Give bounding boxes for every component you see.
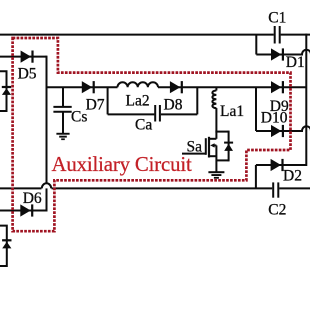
diode D1 (271, 48, 281, 60)
wire Ca branch right vertical (196, 87, 198, 114)
ground below Cs (56, 133, 69, 135)
capacitor C1 left plate (274, 26, 276, 44)
capacitor C2 left plate (272, 182, 274, 197)
diode left bridge top (2, 86, 11, 88)
wire right rail (305, 34, 307, 166)
svg-text:D6: D6 (23, 190, 42, 207)
wire Cs stem lower (62, 112, 64, 134)
svg-text:D7: D7 (86, 97, 105, 114)
wire body diode branch (228, 131, 230, 162)
wire D1 stem (255, 35, 257, 55)
diode D6 (20, 204, 30, 216)
diode D7 (82, 81, 92, 93)
wire Ca branch right horizontal (161, 113, 198, 115)
wire D6 anode (0, 210, 47, 212)
transistor Sa body arrow (210, 143, 214, 147)
wire bottom rail right of C2 (279, 187, 310, 189)
wire left bridge bottom leg (0, 226, 7, 266)
wire D5 anode (0, 56, 47, 58)
wire D2 branch (256, 164, 306, 166)
ground below Sa (208, 171, 224, 173)
wire D2 stem (255, 165, 257, 189)
wire La1 stem upper (215, 87, 217, 90)
wire body stub (214, 144, 216, 146)
diode D5 (21, 51, 31, 63)
wire Ca branch left vertical (107, 87, 109, 114)
wire mosfet drain stub (209, 138, 217, 140)
diode D8 (170, 81, 180, 93)
svg-text:Ca: Ca (135, 116, 152, 133)
svg-text:D8: D8 (164, 96, 183, 113)
transistor Sa gate bar (205, 138, 207, 155)
wire middle rail: La2 to right rail (158, 86, 306, 88)
wire gate lead (182, 153, 206, 155)
svg-text:D2: D2 (283, 167, 302, 184)
wire D9 junction stem (255, 87, 257, 131)
svg-text:D1: D1 (286, 54, 305, 71)
diode D2 (271, 159, 281, 171)
svg-text:Auxiliary Circuit: Auxiliary Circuit (52, 153, 192, 176)
svg-text:C1: C1 (268, 10, 286, 27)
wire Ca branch left horizontal (108, 113, 155, 115)
wire La1 to mosfet drain (215, 108, 217, 139)
capacitor C1 right plate (279, 26, 281, 44)
svg-text:La2: La2 (126, 93, 150, 110)
wire D1 output with hop (256, 50, 311, 55)
wire mosfet source stub (209, 155, 217, 157)
wire left bridge top leg (0, 71, 7, 111)
capacitor Cs top plate (53, 106, 71, 108)
wire top rail right of C1 (281, 34, 310, 36)
diode D9 (271, 81, 281, 93)
diode left bridge bottom (2, 239, 11, 241)
svg-text:La1: La1 (220, 103, 244, 120)
svg-text:D10: D10 (261, 110, 288, 127)
wire D10 branch with hop (256, 126, 311, 131)
wire Cs stem upper (62, 87, 64, 106)
capacitor C2 right plate (277, 182, 279, 197)
inductor La2 coil (118, 82, 158, 87)
capacitor Ca left plate (154, 105, 156, 122)
diode D10 (271, 125, 281, 137)
wire drain tee to body diode (215, 131, 228, 133)
diode Sa body diode (224, 142, 233, 144)
node A vertical (D5/D6 cathode node, upper part) (46, 56, 48, 184)
inductor La1 coil (212, 91, 216, 109)
wire bottom rail left of hop (0, 187, 42, 189)
dashed auxiliary circuit box (13, 38, 291, 231)
svg-text:D5: D5 (18, 65, 37, 82)
svg-text:C2: C2 (268, 202, 286, 219)
wire source tee to body diode (216, 159, 228, 161)
capacitor Ca right plate (159, 105, 161, 122)
wire hop over node A (42, 183, 51, 188)
wire top rail left of C1 (0, 34, 274, 36)
wire bottom rail to C2 (52, 187, 273, 189)
wire middle rail: node A to La2 (46, 86, 118, 88)
capacitor Cs bottom plate (53, 111, 71, 113)
wire source vertical to ground (215, 145, 217, 172)
node A vertical (lower part to D6) (46, 188, 48, 211)
transistor Sa channel bar (208, 137, 210, 158)
